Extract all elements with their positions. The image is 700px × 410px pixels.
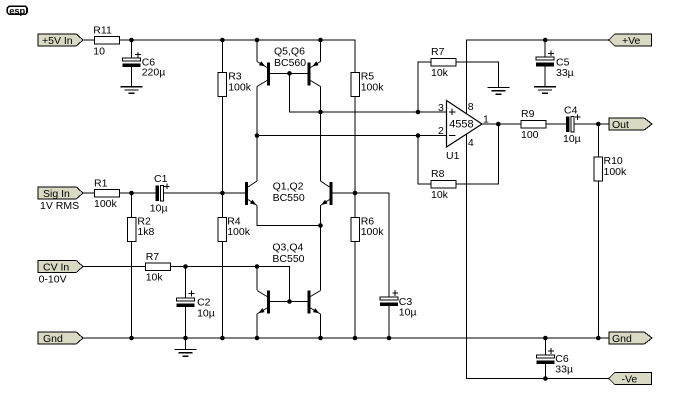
junction tail Q4 collector xyxy=(318,223,323,228)
svg-text:Out: Out xyxy=(612,119,629,131)
wire R3 top lead xyxy=(221,40,223,73)
wire C5 top lead xyxy=(544,40,546,57)
svg-text:C1: C1 xyxy=(154,173,168,185)
svg-text:Gnd: Gnd xyxy=(612,333,632,345)
junction pin2 line R8 xyxy=(416,133,421,138)
op-amp U1 4558 xyxy=(446,101,482,163)
junction gnd C6 xyxy=(543,336,548,341)
capacitor C5 33u xyxy=(536,50,574,79)
resistor R2 xyxy=(127,216,154,242)
wire R3 bottom to node xyxy=(221,97,223,194)
wire Q2 collector up xyxy=(320,112,322,181)
svg-text:10µ: 10µ xyxy=(197,307,215,319)
svg-text:R1: R1 xyxy=(94,177,108,189)
svg-text:Sig In: Sig In xyxy=(43,188,70,200)
transistor Q1 xyxy=(245,181,257,206)
wire C2 top lead xyxy=(185,267,187,299)
junction gnd R2 xyxy=(129,336,134,341)
wire R1 to C1 xyxy=(120,192,156,194)
wire C6b top lead xyxy=(544,338,546,355)
junction gnd C2 xyxy=(183,336,188,341)
svg-text:4558: 4558 xyxy=(449,119,473,131)
tag -Ve xyxy=(609,372,652,385)
svg-text:100k: 100k xyxy=(94,198,118,210)
junction CV C2 xyxy=(183,264,188,269)
wire C4 to Out xyxy=(574,123,609,125)
ground below C6 xyxy=(121,87,143,94)
tag +Ve xyxy=(609,34,652,47)
junction -Ve C6 xyxy=(543,376,548,381)
ground symbol on rail xyxy=(175,350,197,357)
svg-text:100k: 100k xyxy=(227,226,251,238)
wire op-amp output xyxy=(482,123,521,125)
capacitor C3 10u xyxy=(380,290,417,318)
svg-text:10k: 10k xyxy=(431,189,449,201)
ground near op-amp xyxy=(487,88,509,95)
svg-text:10k: 10k xyxy=(146,272,164,284)
tag Sig In xyxy=(38,187,83,200)
wire +5V rail xyxy=(120,40,356,73)
svg-text:Gnd: Gnd xyxy=(43,333,63,345)
svg-text:BC550: BC550 xyxy=(273,192,305,204)
tag Gnd left xyxy=(38,332,83,345)
wire R7 to Q3 Q4 bases xyxy=(171,267,290,302)
svg-text:R7: R7 xyxy=(431,46,445,58)
junction Q3 Q4 bases xyxy=(287,299,292,304)
wire Sig tag to R1 xyxy=(83,192,95,194)
wire Q2 base to node xyxy=(333,193,390,297)
wire Q5 collector down xyxy=(256,87,258,182)
wire Q3 collector lead xyxy=(256,267,258,291)
junction gnd Q3 emitter xyxy=(255,336,260,341)
transistor Q6 xyxy=(308,61,321,86)
transistor Q2 xyxy=(321,181,333,206)
svg-text:10: 10 xyxy=(93,46,105,58)
resistor R8 xyxy=(431,168,456,201)
junction Q2 base R5 R6 xyxy=(353,191,358,196)
junction pin3 line R7 xyxy=(416,110,421,115)
resistor R6 xyxy=(351,216,384,242)
svg-text:2: 2 xyxy=(438,125,444,137)
junction pin3 line Q2 collector xyxy=(318,110,323,115)
resistor R4 xyxy=(218,216,251,242)
svg-text:Q3,Q4: Q3,Q4 xyxy=(272,241,303,253)
wire Q3 Q4 base link xyxy=(270,301,308,303)
wire feedback to R8 xyxy=(456,124,498,184)
wire Q4 emitter to gnd xyxy=(320,314,322,338)
svg-text:BC560: BC560 xyxy=(274,57,306,69)
svg-text:100k: 100k xyxy=(361,81,385,93)
svg-text:C4: C4 xyxy=(564,105,578,117)
wire R10 top lead xyxy=(597,124,599,157)
capacitor C6 220u xyxy=(123,52,166,79)
svg-text:R9: R9 xyxy=(521,108,535,120)
wire emitter tail xyxy=(257,206,321,226)
junction +5V Q6 emitter xyxy=(318,38,323,43)
svg-text:10k: 10k xyxy=(431,67,449,79)
resistor R11 xyxy=(93,24,119,57)
junction Q5 Q6 bases xyxy=(287,71,292,76)
junction +5V R3 xyxy=(220,38,225,43)
wire pin 4 to -Ve rail xyxy=(466,134,608,379)
svg-text:0-10V: 0-10V xyxy=(39,274,67,286)
resistor R3 xyxy=(218,71,252,97)
junction CV Q3 collector xyxy=(255,264,260,269)
resistor R1 xyxy=(94,177,120,210)
svg-text:Q5,Q6: Q5,Q6 xyxy=(274,46,305,58)
junction +5V C6 xyxy=(129,38,134,43)
junction gnd Q4 emitter xyxy=(318,336,323,341)
svg-text:1V RMS: 1V RMS xyxy=(40,200,79,212)
svg-text:R7: R7 xyxy=(146,251,160,263)
svg-text:220µ: 220µ xyxy=(142,67,166,79)
ground below C5 xyxy=(534,87,556,94)
wire R7 left lead xyxy=(418,62,431,112)
junction gnd C3 xyxy=(387,336,392,341)
resistor R9 xyxy=(521,108,546,141)
svg-text:+5V In: +5V In xyxy=(42,35,73,47)
svg-text:+Ve: +Ve xyxy=(622,35,641,47)
junction +Ve C5 xyxy=(543,38,548,43)
junction +5V Q5 emitter xyxy=(255,38,260,43)
tag CV In xyxy=(38,260,83,273)
svg-text:8: 8 xyxy=(468,101,474,113)
junction output R10 xyxy=(596,122,601,127)
svg-text:BC550: BC550 xyxy=(272,253,304,265)
wire R4 bottom to gnd xyxy=(221,241,223,338)
junction sig R2 xyxy=(129,191,134,196)
wire Q5 emitter lead xyxy=(256,40,258,62)
wire C5 to ground xyxy=(544,66,546,86)
capacitor C4 10u xyxy=(563,105,581,145)
wire C6b bottom lead xyxy=(544,364,546,378)
svg-text:100k: 100k xyxy=(604,166,628,178)
wire C3 bottom to gnd xyxy=(388,306,390,338)
transistor Q3 xyxy=(257,291,270,315)
wire C1 to Q1 base xyxy=(164,192,245,194)
resistor R7 10k top xyxy=(431,46,456,79)
wire ground rail xyxy=(83,337,609,339)
junction Q5 collector to pin2 line xyxy=(255,133,260,138)
wire Q4 collector up to tail xyxy=(320,226,322,291)
wire base node to pin 3 xyxy=(290,73,447,112)
svg-text:-Ve: -Ve xyxy=(622,373,638,385)
svg-text:33µ: 33µ xyxy=(555,364,573,376)
resistor R7 10k lower xyxy=(146,251,171,284)
svg-text:4: 4 xyxy=(468,137,474,149)
wire R8 left to pin 2 xyxy=(418,136,431,185)
capacitor C6 33u lower xyxy=(536,348,573,376)
wire C6 top lead xyxy=(131,40,133,58)
ESP logo xyxy=(7,6,27,17)
resistor R10 xyxy=(594,155,627,181)
svg-text:3: 3 xyxy=(438,102,444,114)
wire Q6 emitter lead xyxy=(320,40,322,62)
junction gnd R6 xyxy=(353,336,358,341)
junction gnd R4 xyxy=(220,336,225,341)
transistor Q4 xyxy=(308,291,321,315)
wire R9 to C4 xyxy=(546,123,566,125)
wire R6 top lead xyxy=(354,193,356,217)
wire R2 bottom to gnd xyxy=(131,241,133,338)
svg-text:100: 100 xyxy=(521,129,539,141)
svg-text:100k: 100k xyxy=(228,81,252,93)
svg-text:CV In: CV In xyxy=(43,261,69,273)
wire R6 bottom to gnd xyxy=(354,241,356,338)
svg-text:1k8: 1k8 xyxy=(137,226,154,238)
wire Q5 Q6 base link xyxy=(270,72,308,74)
capacitor C2 10u xyxy=(177,291,215,320)
wire R4 top lead xyxy=(221,193,223,217)
wire R5 bottom lead xyxy=(354,97,356,194)
wire pin 8 to +Ve rail xyxy=(466,40,608,113)
tag Gnd right xyxy=(609,332,652,345)
junction gnd R10 xyxy=(596,336,601,341)
tag +5V In xyxy=(38,34,83,47)
wire Q3 emitter to gnd xyxy=(256,314,258,338)
resistor R5 xyxy=(351,71,384,97)
junction C1 R3 R4 Q1 xyxy=(220,191,225,196)
wire R10 bottom to gnd xyxy=(597,181,599,338)
capacitor C1 10u xyxy=(150,173,170,215)
wire Q6 collector down xyxy=(320,87,322,113)
tag Out xyxy=(609,118,652,131)
svg-text:esp: esp xyxy=(9,6,25,17)
wire +5V tag to R11 xyxy=(83,39,95,41)
wire CV tag to R7 xyxy=(83,266,146,268)
svg-text:10µ: 10µ xyxy=(399,307,417,319)
svg-text:R11: R11 xyxy=(93,24,112,36)
wire pin 2 line xyxy=(257,135,447,137)
wire R2 top lead xyxy=(131,193,133,217)
svg-text:100k: 100k xyxy=(361,226,385,238)
svg-text:Q1,Q2: Q1,Q2 xyxy=(273,180,304,192)
wire C2 bottom to gnd xyxy=(185,307,187,338)
wire ground marker stem xyxy=(185,338,187,350)
wire C6 to ground xyxy=(131,67,133,87)
svg-text:33µ: 33µ xyxy=(556,67,574,79)
svg-text:10µ: 10µ xyxy=(563,133,581,145)
svg-text:R8: R8 xyxy=(431,168,445,180)
transistor Q5 xyxy=(257,61,270,86)
wire R7 right to ground stub xyxy=(456,62,498,88)
svg-text:U1: U1 xyxy=(446,150,460,162)
svg-text:10µ: 10µ xyxy=(150,203,168,215)
junction output feedback xyxy=(496,122,501,127)
